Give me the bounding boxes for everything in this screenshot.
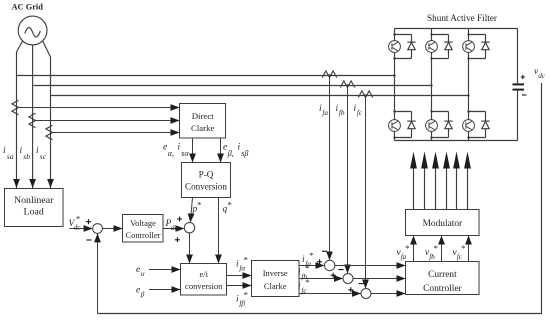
svg-text:*: * (244, 289, 248, 299)
svg-text:i: i (3, 146, 6, 156)
svg-text:conversion: conversion (185, 281, 223, 291)
svg-text:α: α (141, 270, 145, 278)
svg-text:*: * (305, 277, 309, 287)
svg-text:sb: sb (23, 152, 30, 161)
svg-text:fc: fc (301, 287, 307, 295)
svg-text:Shunt Active Filter: Shunt Active Filter (427, 13, 497, 23)
svg-text:*: * (309, 250, 313, 260)
svg-text:e/i: e/i (199, 269, 208, 279)
svg-text:dc: dc (171, 224, 179, 232)
svg-text:*: * (405, 243, 409, 253)
svg-text:fβ: fβ (239, 300, 245, 308)
svg-text:fc: fc (357, 109, 363, 117)
svg-text:i: i (178, 142, 181, 153)
svg-text:sα: sα (181, 149, 189, 158)
svg-text:fa: fa (401, 253, 407, 261)
svg-text:fb: fb (429, 253, 435, 261)
svg-text:Clarke: Clarke (191, 123, 215, 133)
svg-text:dc: dc (74, 223, 82, 231)
svg-text:*: * (228, 199, 232, 209)
svg-text:sβ: sβ (241, 149, 248, 158)
svg-text:fα: fα (239, 265, 245, 273)
svg-text:*: * (434, 243, 438, 253)
svg-text:i: i (20, 146, 23, 156)
svg-text:fb: fb (339, 109, 345, 117)
svg-text:Nonlinear: Nonlinear (14, 195, 54, 206)
svg-text:*: * (76, 213, 80, 223)
svg-text:Voltage: Voltage (130, 218, 156, 228)
svg-text:sc: sc (40, 152, 47, 161)
svg-text:sa: sa (7, 152, 14, 161)
svg-text:dc: dc (538, 72, 546, 80)
svg-text:α,: α, (168, 149, 174, 158)
svg-text:β,: β, (227, 149, 234, 158)
svg-text:P-Q: P-Q (199, 170, 214, 180)
svg-text:e: e (136, 286, 140, 296)
svg-text:*: * (305, 263, 309, 273)
svg-text:Conversion: Conversion (185, 182, 227, 192)
svg-text:Controller: Controller (126, 230, 161, 240)
svg-text:fc: fc (457, 253, 463, 261)
svg-text:*: * (461, 243, 465, 253)
svg-text:Current: Current (428, 270, 457, 280)
svg-text:Modulator: Modulator (423, 219, 463, 229)
svg-text:Clarke: Clarke (264, 281, 287, 291)
svg-text:β: β (140, 291, 145, 299)
svg-text:Controller: Controller (423, 284, 462, 294)
svg-text:e: e (136, 265, 140, 275)
svg-text:i: i (238, 142, 241, 153)
svg-text:*: * (197, 199, 201, 209)
svg-text:fa: fa (322, 109, 328, 117)
svg-text:Load: Load (24, 207, 44, 218)
svg-text:AC Grid: AC Grid (12, 3, 44, 12)
svg-text:i: i (36, 146, 39, 156)
svg-text:Direct: Direct (192, 111, 215, 121)
svg-text:*: * (244, 254, 248, 264)
svg-text:Inverse: Inverse (263, 268, 288, 278)
